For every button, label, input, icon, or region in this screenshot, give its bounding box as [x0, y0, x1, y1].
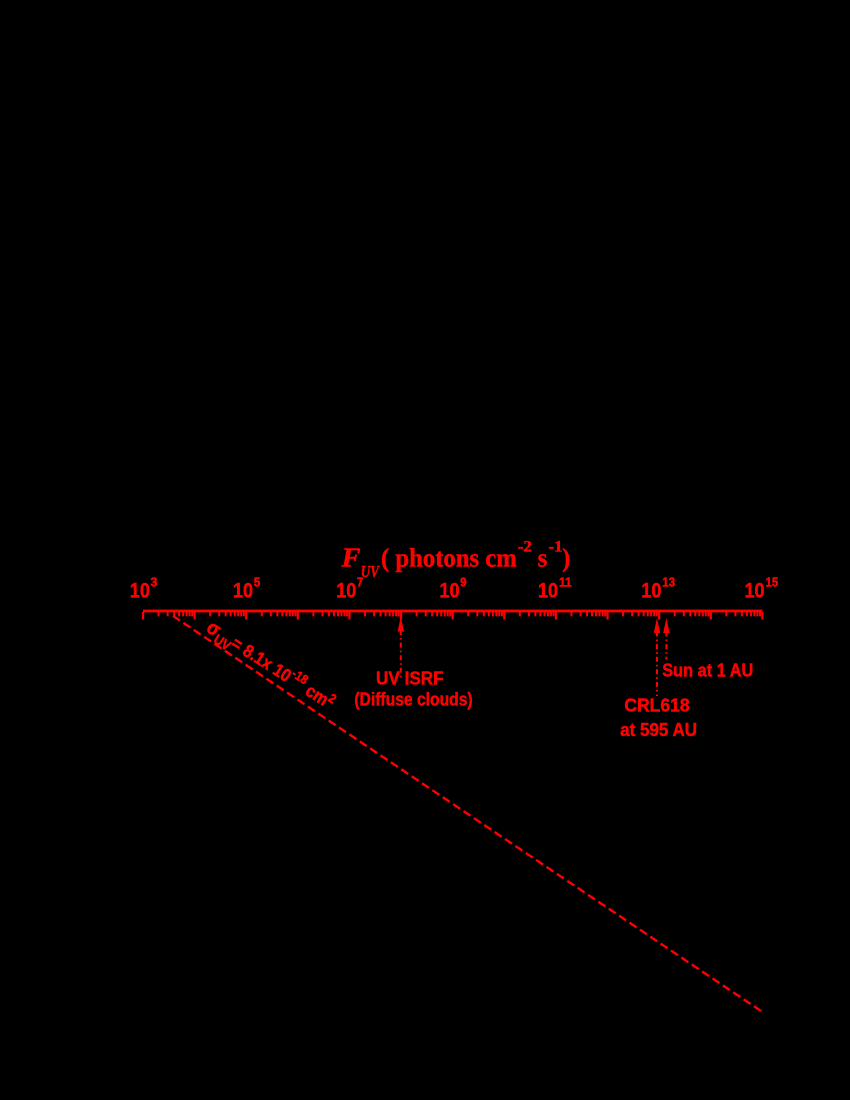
- svg-text:( photons cm: ( photons cm: [381, 544, 517, 573]
- svg-text:): ): [562, 544, 570, 573]
- svg-text:-1: -1: [549, 539, 563, 556]
- svg-text:10: 10: [745, 579, 765, 603]
- UV ISRF arrow (dash-dot, pointing up to axis at 10^8): [398, 617, 404, 679]
- dashed diagonal line sigma_UV slope: [173, 616, 761, 1011]
- svg-text:7: 7: [357, 576, 363, 590]
- svg-text:at 595 AU: at 595 AU: [620, 720, 697, 740]
- tick label 10^11: [538, 576, 572, 603]
- svg-text:3: 3: [150, 576, 157, 590]
- svg-text:5: 5: [254, 576, 261, 590]
- tick label 10^9: [439, 576, 466, 603]
- tick label 10^7: [336, 576, 363, 603]
- svg-text:10: 10: [130, 579, 150, 603]
- rotated line label: sigma_UV = 8.1x 10^-18 cm^2: [201, 614, 340, 717]
- minor log ticks (2..9 per decade): [158, 612, 762, 616]
- svg-text:-2: -2: [518, 539, 532, 556]
- svg-text:15: 15: [766, 576, 779, 590]
- svg-text:10: 10: [641, 579, 661, 603]
- top axis line (10^3 to 10^15): [143, 610, 762, 613]
- tick label 10^13: [641, 576, 675, 603]
- svg-text:13: 13: [662, 576, 675, 590]
- svg-text:σUV= 8.1x 10-18 cm2: σUV= 8.1x 10-18 cm2: [201, 614, 340, 717]
- svg-text:10: 10: [336, 579, 356, 603]
- svg-text:11: 11: [559, 576, 572, 590]
- tick label 10^3: [130, 576, 158, 603]
- svg-text:CRL618: CRL618: [624, 695, 689, 715]
- svg-text:UV ISRF: UV ISRF: [376, 668, 444, 688]
- svg-text:10: 10: [439, 579, 459, 603]
- CRL618 arrow (dash-dot, pointing up to axis near 10^13): [654, 618, 660, 696]
- svg-text:(Diffuse clouds): (Diffuse clouds): [354, 690, 472, 710]
- major ticks (one per decade): [142, 612, 764, 620]
- svg-text:Sun at 1 AU: Sun at 1 AU: [662, 660, 753, 680]
- svg-text:10: 10: [233, 579, 253, 603]
- dashed line terminal dot: [759, 1009, 762, 1012]
- svg-text:F: F: [340, 543, 360, 573]
- svg-text:10: 10: [538, 579, 558, 603]
- svg-text:UV: UV: [361, 562, 380, 581]
- tick label 10^5: [233, 576, 260, 603]
- svg-text:9: 9: [460, 576, 467, 590]
- svg-text:s: s: [538, 544, 548, 573]
- axis title F_UV ( photons cm^-2 s^-1 ): [340, 539, 570, 582]
- Sun arrow (dash-dot, pointing up to axis just right of 10^13): [663, 618, 669, 660]
- tick label 10^15: [745, 576, 779, 603]
